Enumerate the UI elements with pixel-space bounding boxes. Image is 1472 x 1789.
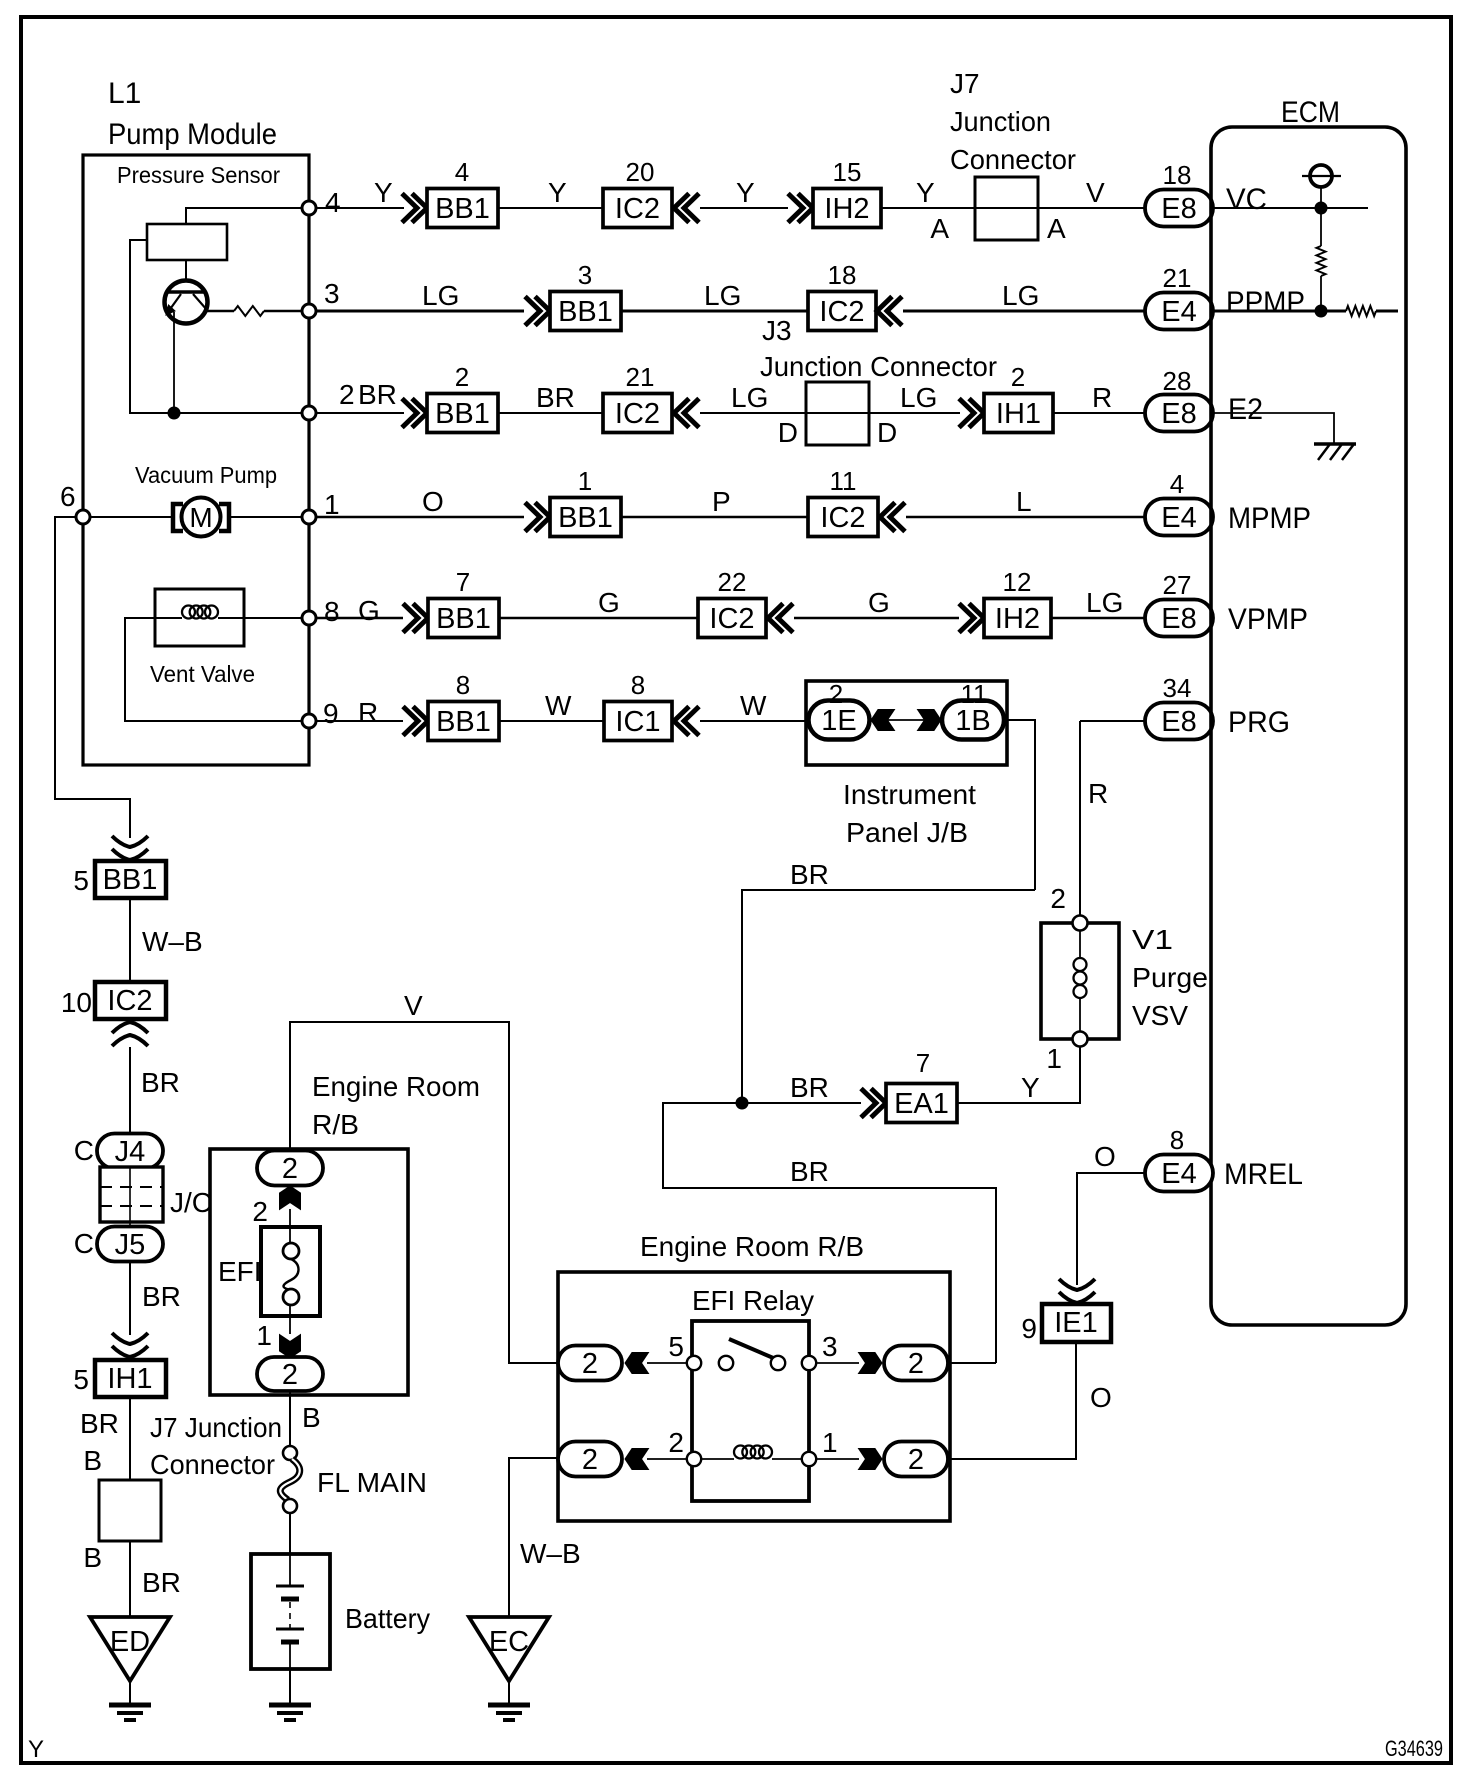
wire 1B out and down [1004,720,1035,890]
ECM internal ground (chassis) [1314,442,1356,446]
svg-text:A: A [930,213,949,244]
wire through J3 [806,412,869,414]
wire EC to earth [508,1681,510,1705]
junction IH2 row5 [984,599,1051,638]
pin 18 above E8 row1 [1163,160,1192,190]
svg-text:Junction Connector: Junction Connector [760,351,997,382]
connector E4 row2 (PPMP) [1145,293,1213,330]
wire J7 box to ED [129,1541,131,1617]
svg-text:EC: EC [489,1626,529,1658]
connector arrows into BB1 row1 [402,194,427,223]
connector arrows out of IC2 row5 [768,604,793,633]
pin 7 above EA1 [916,1048,930,1078]
pressure sensor element box [147,224,227,260]
svg-text:BB1: BB1 [436,706,491,738]
connector 2 bottom of fuse box [257,1357,323,1391]
connector E8 row6 (PRG) [1145,703,1213,740]
junction IE1 [1042,1304,1111,1342]
wire J5 to IH1 [129,1262,131,1335]
svg-text:J4: J4 [115,1136,146,1168]
wire vent valve left to pin 9 [125,618,302,721]
svg-text:PPMP: PPMP [1226,286,1305,319]
svg-text:MREL: MREL [1224,1158,1303,1191]
connector 2 relay pin2 side [558,1442,622,1477]
svg-text:1B: 1B [955,705,990,737]
wire through J7 [975,207,1038,209]
connector 2 relay pin3 side [884,1346,948,1381]
svg-text:8: 8 [324,596,340,627]
ground EC triangle [469,1617,549,1681]
svg-text:VC: VC [1226,183,1267,216]
svg-text:G34639: G34639 [1385,1736,1443,1761]
relay coil [701,1458,734,1460]
connector E8 row1 (VC) [1145,190,1213,227]
svg-text:EFI: EFI [218,1256,262,1287]
connector 2 top of fuse box [257,1151,323,1186]
junction IH1 pin5 [95,1360,166,1397]
svg-text:2: 2 [582,1444,598,1476]
arrow into relay 2 left bottom [625,1449,649,1470]
junction IC2 row2 [808,292,876,331]
svg-text:BR: BR [790,1072,829,1103]
junction IH2 row1 [813,189,881,228]
wire BB1 to IC2 row5 [499,617,698,620]
svg-text:PRG: PRG [1228,706,1290,739]
connector arrows into BB1 (pin5) [112,836,148,860]
svg-text:Y: Y [28,1736,44,1763]
pin 3 above BB1 row2 [578,260,592,290]
svg-text:Junction: Junction [950,106,1051,137]
connector J5 [97,1227,163,1262]
svg-text:J5: J5 [115,1229,146,1261]
svg-text:Vacuum Pump: Vacuum Pump [135,462,277,488]
connector E4 row4 (MPMP) [1145,499,1213,536]
ECM VC supply symbol (circle) [1310,165,1332,187]
svg-text:M: M [189,502,212,533]
wire IC1 to instrument panel 1E [700,720,809,722]
arrow down into connector 2 bottom [280,1335,301,1359]
junction connector J7 box (bottom) [99,1480,161,1541]
wire W-B from relay pin2 to EC [509,1458,558,1617]
pin 15 above IH2 [833,157,862,187]
connector arrows out of IC2 row1 [674,194,699,223]
wire arrow to EFI fuse [289,1209,291,1243]
svg-text:L1: L1 [108,77,141,110]
fuse EFI [261,1227,320,1316]
wire between 1E and 1B [869,719,942,721]
svg-text:7: 7 [456,567,470,597]
svg-text:2: 2 [1050,883,1066,914]
svg-text:MPMP: MPMP [1228,502,1311,535]
svg-text:LG: LG [704,280,741,311]
wire pin3 to BB1 row2 [316,310,524,313]
svg-text:IC1: IC1 [615,706,660,738]
svg-text:5: 5 [73,1364,89,1395]
ECM box [1211,127,1406,1325]
svg-text:20: 20 [626,157,655,187]
svg-text:BR: BR [142,1567,181,1598]
svg-text:34: 34 [1163,673,1192,703]
svg-text:G: G [598,587,620,618]
wire IH1 to ECM E8 pin28 [1053,412,1145,414]
svg-text:10: 10 [61,987,92,1018]
svg-text:LG: LG [1086,587,1123,618]
relay pin 3 circle [802,1356,816,1370]
connector arrows into EA1 [861,1089,886,1118]
pin 8 above IC1 [631,670,645,700]
wire fuse to arrow down [289,1305,291,1334]
ECM internal resistor PPMP (series) [1322,310,1346,313]
svg-text:G: G [868,587,890,618]
wire BB1 to IC2 row1 [498,207,603,209]
connector arrows into BB1 row5 [403,604,428,633]
connector 1B [942,701,1004,740]
connector arrows out of IC2 row3 [674,399,699,428]
svg-text:E8: E8 [1161,398,1196,430]
engine room R/B fuse box [210,1149,408,1395]
wire IH1 to J7 connector box [129,1397,131,1480]
wire ED to earth [129,1681,131,1705]
svg-text:C: C [74,1228,94,1259]
module pin 4 [302,201,316,215]
wire IC2 to ECM E4 pin21 [903,310,1145,313]
svg-text:2: 2 [908,1444,924,1476]
junction BB1 row6 [428,702,499,741]
pump module L1 box [83,155,309,765]
purge VSV V1 box [1041,923,1119,1039]
wire R from PRG down to VSV pin2 [1079,721,1081,916]
transistor Q (pressure sensor output) [165,281,208,324]
connector arrows out of IC2 pin10 [112,1022,148,1046]
svg-text:1: 1 [822,1427,838,1458]
junction IC2 row1 [603,189,672,228]
svg-text:V1: V1 [1132,924,1173,955]
svg-text:W–B: W–B [520,1538,581,1569]
svg-text:IH2: IH2 [995,603,1040,635]
svg-text:Y: Y [916,177,935,208]
relay switch blade [729,1339,778,1360]
resistor in pressure sensor [234,306,264,316]
junction IC2 row5 [698,599,766,638]
module pin 9 [302,714,316,728]
svg-text:9: 9 [323,698,339,729]
connector arrows into IH2 row5 [959,604,984,633]
svg-text:O: O [1094,1141,1116,1172]
svg-text:LG: LG [900,382,937,413]
wire BB1 to IC2 row2 [621,310,808,313]
connector arrows into IH1 row3 [959,399,984,428]
svg-text:R: R [1092,382,1112,413]
svg-text:EA1: EA1 [894,1088,949,1120]
instrument panel J/B box [806,681,1007,765]
wire BB1 to IC2 row4 [621,516,808,519]
earth symbol battery [269,1705,311,1720]
svg-text:E4: E4 [1161,1158,1196,1190]
svg-text:21: 21 [626,362,655,392]
wire vent valve right to pin 8 [244,617,302,619]
svg-text:R: R [1088,778,1108,809]
svg-text:8: 8 [631,670,645,700]
VSV pin 2 circle [1073,916,1088,931]
ECM internal resistor (pull-up) [1320,208,1322,246]
svg-text:Purge: Purge [1132,962,1208,993]
junction connector J3 box [806,382,869,445]
svg-text:E4: E4 [1161,296,1196,328]
wire EA1 to VSV pin1 [957,1046,1080,1103]
svg-text:W–B: W–B [142,926,203,957]
wire FL MAIN to battery [289,1513,291,1554]
wire sensor left branch to pin 2 [130,240,302,413]
svg-text:E8: E8 [1161,193,1196,225]
junction BB1 pin5 [95,861,166,898]
svg-text:P: P [712,486,731,517]
svg-text:IE1: IE1 [1054,1307,1098,1339]
pin 4 above BB1 [455,157,469,187]
wire motor to pin 1 [231,516,302,518]
svg-text:BR: BR [142,1281,181,1312]
wire relay pin1 oval to IE1 [948,1343,1076,1459]
svg-text:Y: Y [1021,1072,1040,1103]
svg-text:2: 2 [282,1359,298,1391]
svg-text:5: 5 [73,865,89,896]
svg-text:IH2: IH2 [824,193,869,225]
connector arrows out of IC2 row4 [880,503,905,532]
ECM internal E2 wire to ground [1213,413,1334,444]
relay pin 2 circle [687,1452,701,1466]
ECM VC supply stem [1320,187,1322,208]
junction IC1 row6 [604,702,672,741]
wire BB1 to IC2 chain [129,898,131,982]
junction BB1 row5 [428,599,499,638]
svg-text:V: V [1086,177,1105,208]
module pin 2 [302,406,316,420]
connector 2 relay pin5 side [558,1346,622,1381]
svg-text:2: 2 [1011,362,1025,392]
connector J4 [97,1134,163,1169]
svg-text:7: 7 [916,1048,930,1078]
wire IC2 to IH2 row1 [700,207,788,209]
wire IC2 to J4 [129,1047,131,1134]
connector E8 row3 (E2) [1145,395,1213,432]
arrow into relay 2 right top [859,1353,883,1374]
wire BB1 to IC1 row6 [499,720,604,722]
svg-text:1: 1 [324,489,340,520]
pin 12 above IH2 row5 [1003,567,1032,597]
junction BB1 row2 [550,292,621,331]
module pin 3 [302,304,316,318]
wire battery to earth [289,1669,291,1705]
junction IH1 row3 [984,394,1053,433]
wire pin4 to BB1 [316,207,404,209]
svg-text:28: 28 [1163,366,1192,396]
arrow into 1E [871,710,895,731]
svg-text:LG: LG [1002,280,1039,311]
svg-text:BR: BR [790,859,829,890]
wire pin6 to motor [90,516,171,518]
svg-text:Connector: Connector [150,1449,275,1480]
pin 8 above BB1 row6 [456,670,470,700]
EFI relay inner box [692,1321,809,1501]
svg-text:27: 27 [1163,570,1192,600]
pin 18 above IC2 row2 [828,260,857,290]
arrow into relay 2 right bottom [859,1449,883,1470]
svg-text:Panel J/B: Panel J/B [846,817,968,848]
pin 1 above BB1 row4 [578,466,592,496]
svg-text:9: 9 [1021,1313,1037,1344]
relay switch contact left [719,1356,733,1370]
wire pin8 to BB1 row5 [316,617,403,620]
svg-text:L: L [1016,486,1032,517]
pin 11 above 1B [961,679,988,709]
pin 28 above E8 row3 [1163,366,1192,396]
wire IC2 to ECM E4 pin4 [906,516,1145,519]
svg-text:E8: E8 [1161,603,1196,635]
connector arrows into BB1 row6 [403,707,428,736]
module pin 1 [302,510,316,524]
wire arrow to relay pin 2 [647,1458,694,1460]
connector arrows into IH2 row1 [788,194,813,223]
svg-text:BR: BR [790,1156,829,1187]
junction dot VC [1315,202,1328,215]
ECM internal VC wire [1213,207,1368,209]
svg-text:V: V [404,990,423,1021]
svg-text:2: 2 [455,362,469,392]
svg-text:VSV: VSV [1132,1000,1188,1031]
pin 8 above E4 MREL [1170,1125,1184,1155]
vacuum pump motor M1 [173,504,183,531]
wire BR from 1B down and across [742,890,1035,1103]
svg-text:4: 4 [1170,469,1184,499]
svg-text:A: A [1047,213,1066,244]
svg-text:Connector: Connector [950,144,1076,175]
earth symbol EC [488,1705,530,1720]
svg-text:J7 Junction: J7 Junction [150,1412,282,1443]
pin 34 above E8 row6 [1163,673,1192,703]
svg-text:D: D [778,417,798,448]
wire IC2 to IH2 row5 [794,617,959,620]
junction connector J7 box [975,177,1038,240]
svg-text:1: 1 [1046,1043,1062,1074]
svg-text:G: G [358,595,380,626]
svg-text:4: 4 [325,187,341,218]
battery box [251,1554,330,1669]
junction IC2 row3 [603,394,672,433]
wire V from fuse box to EFI relay pin5 [290,1022,558,1363]
vent valve coil [155,617,182,619]
wire pin2 to BB1 row3 [316,412,404,414]
svg-text:12: 12 [1003,567,1032,597]
wire dot to EA1 [742,1102,861,1104]
junction dot BR [736,1097,749,1110]
svg-text:FL MAIN: FL MAIN [317,1467,427,1498]
wire J7 to ECM E8 pin18 [1038,207,1145,209]
relay switch contact right [771,1356,785,1370]
pin 11 above IC2 row4 [830,466,857,496]
connector arrows into BB1 row4 [525,503,550,532]
svg-text:O: O [1090,1382,1112,1413]
junction BB1 row4 [550,498,621,537]
junction IC2 row4 [808,498,878,537]
svg-text:VPMP: VPMP [1228,603,1308,636]
connector arrows out of IC2 row2 [877,297,902,326]
wire pin9 to BB1 row6 [316,720,403,722]
wire IC2 to J3 junction connector [700,412,806,414]
svg-text:J7: J7 [950,68,980,99]
svg-text:BB1: BB1 [436,603,491,635]
svg-text:IH1: IH1 [996,398,1041,430]
svg-text:ECM: ECM [1281,96,1340,129]
svg-text:2: 2 [252,1196,268,1227]
wire O from MREL to IE1 [1077,1173,1145,1285]
svg-text:IC2: IC2 [819,296,864,328]
module pin 8 [302,611,316,625]
svg-text:E4: E4 [1161,502,1196,534]
pin 20 above IC2 [626,157,655,187]
svg-text:BB1: BB1 [435,193,490,225]
svg-text:IH1: IH1 [107,1363,152,1395]
svg-text:Vent Valve: Vent Valve [150,661,255,687]
svg-text:18: 18 [828,260,857,290]
arrow into relay 2 left top [625,1353,649,1374]
svg-text:LG: LG [422,280,459,311]
svg-text:22: 22 [718,567,747,597]
relay pin 1 circle [802,1452,816,1466]
connector E8 row5 (VPMP) [1145,600,1213,637]
svg-text:Engine Room R/B: Engine Room R/B [640,1231,864,1262]
svg-text:BR: BR [80,1408,119,1439]
svg-text:Pump Module: Pump Module [108,118,277,151]
svg-text:J/C: J/C [170,1187,212,1218]
svg-text:ED: ED [110,1626,150,1658]
pin 21 above E4 row2 [1163,263,1192,293]
svg-text:4: 4 [455,157,469,187]
relay pin 5 circle [687,1356,701,1370]
ground ED triangle [90,1617,170,1681]
connector arrows into BB1 row2 [525,297,550,326]
wire PRG from vertical to ECM E8 pin34 [1080,720,1145,722]
wire pin6 down-left to W-B chevron [55,517,130,838]
svg-text:15: 15 [833,157,862,187]
svg-text:21: 21 [1163,263,1192,293]
svg-text:O: O [422,486,444,517]
arrow up into connector 2 [280,1186,301,1210]
wire arrow to relay pin 5 [647,1362,694,1364]
ECM internal PPMP wire [1213,310,1322,313]
junction IC2 pin10 [95,982,166,1019]
wire relay pin3 to arrow [816,1362,859,1364]
svg-text:1: 1 [256,1320,272,1351]
pin 27 above E8 row5 [1163,570,1192,600]
wire relay pin3 oval out [948,1362,996,1364]
svg-text:B: B [83,1542,102,1573]
svg-text:BR: BR [358,379,397,410]
svg-text:2: 2 [829,679,843,709]
svg-text:Y: Y [548,177,567,208]
svg-text:BB1: BB1 [558,296,613,328]
wire resistor to pin 3 [264,310,302,313]
svg-text:Pressure Sensor: Pressure Sensor [117,162,280,188]
VSV coil [1079,930,1081,958]
svg-text:LG: LG [731,382,768,413]
svg-text:Instrument: Instrument [843,779,976,810]
svg-text:2: 2 [668,1427,684,1458]
svg-text:2: 2 [282,1153,298,1185]
pin 2 above BB1 row3 [455,362,469,392]
svg-text:E2: E2 [1228,393,1263,426]
svg-text:BB1: BB1 [558,502,613,534]
pin 7 above BB1 row5 [456,567,470,597]
svg-text:IC2: IC2 [107,985,152,1017]
